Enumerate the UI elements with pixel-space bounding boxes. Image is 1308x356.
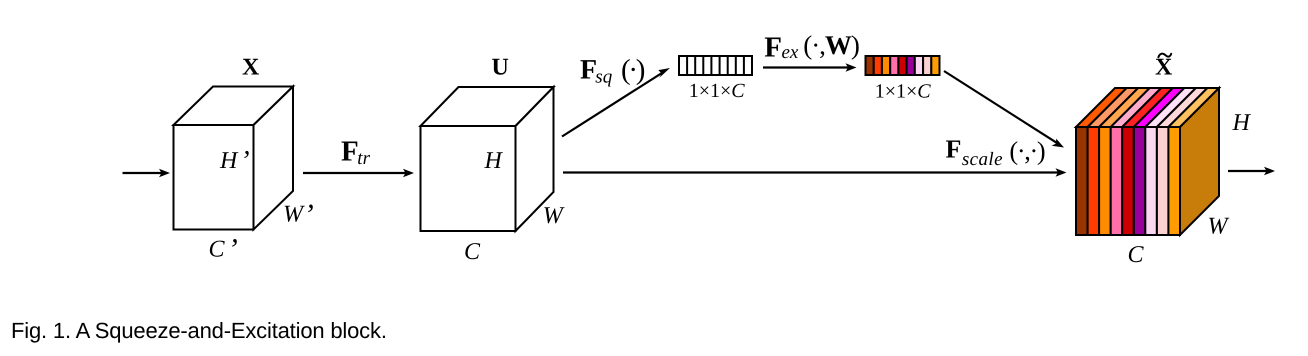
svg-text:U: U — [492, 55, 509, 81]
svg-text:(·,·): (·,·) — [1009, 136, 1045, 165]
svg-text:W: W — [283, 202, 305, 228]
svg-text:sq: sq — [595, 67, 612, 88]
svg-text:ex: ex — [782, 42, 799, 63]
svg-text:(·): (·) — [621, 54, 645, 86]
svg-text:C: C — [209, 237, 226, 263]
excitation vector 1x1xC colored — [866, 56, 940, 75]
svg-text:X: X — [242, 55, 260, 81]
svg-text:scale: scale — [962, 149, 1003, 170]
F_tr arrow — [303, 169, 414, 178]
F_sq arrow — [562, 68, 670, 137]
scaled tensor X-tilde cube front face stripes — [1076, 127, 1180, 235]
svg-text:(·,W): (·,W) — [803, 30, 859, 60]
svg-text:H: H — [219, 148, 239, 174]
scaled tensor X-tilde cube right face — [1180, 88, 1219, 235]
squeeze vector 1x1xC — [679, 56, 752, 75]
F_ex arrow — [763, 63, 857, 72]
tensor U cube — [421, 87, 554, 231]
svg-text:F: F — [946, 134, 962, 163]
svg-text:H: H — [484, 148, 504, 174]
svg-text:F: F — [764, 32, 782, 64]
input arrow — [123, 169, 171, 178]
svg-text:1×1×C: 1×1×C — [689, 80, 746, 102]
label F_ex — [764, 30, 859, 63]
F_scale arrow — [563, 168, 1067, 177]
svg-text:tr: tr — [357, 148, 370, 169]
svg-text:’: ’ — [304, 198, 314, 231]
svg-text:C: C — [1128, 242, 1145, 268]
svg-text:1×1×C: 1×1×C — [875, 80, 932, 102]
svg-text:H: H — [1232, 110, 1252, 136]
scaled tensor X-tilde cube top face stripes — [1076, 88, 1219, 127]
svg-text:F: F — [341, 135, 359, 167]
svg-text:W: W — [1208, 214, 1230, 240]
tensor X cube — [174, 87, 294, 230]
label F_scale — [946, 134, 1045, 170]
svg-text:’: ’ — [240, 146, 249, 177]
arrow excitation to scaled cube — [944, 71, 1064, 148]
svg-text:’: ’ — [228, 233, 238, 266]
label F_sq — [580, 54, 645, 88]
svg-text:C: C — [464, 239, 481, 265]
svg-text:W: W — [543, 203, 565, 229]
svg-text:Fig. 1. A Squeeze-and-Excitati: Fig. 1. A Squeeze-and-Excitation block. — [11, 318, 387, 343]
label F_tr — [341, 135, 371, 168]
svg-text:X: X — [1155, 55, 1173, 81]
output arrow — [1228, 167, 1275, 176]
